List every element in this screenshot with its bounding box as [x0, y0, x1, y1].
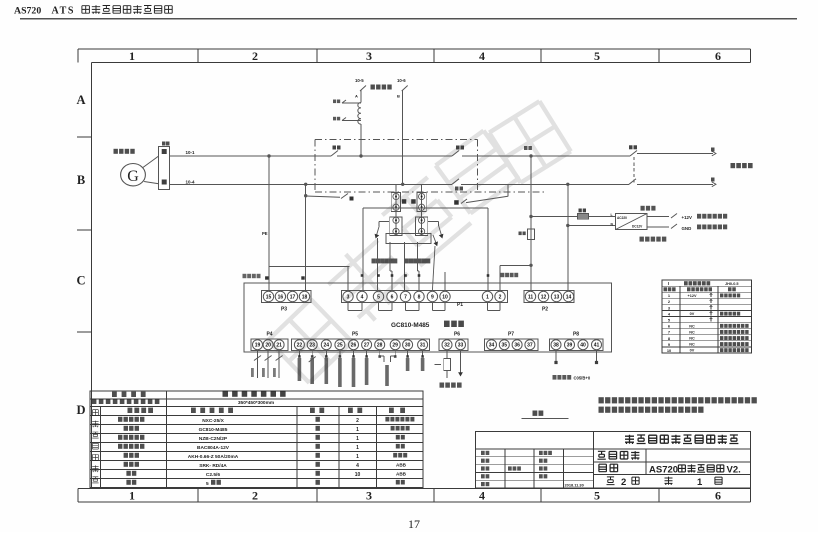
- svg-text:35: 35: [502, 343, 508, 349]
- battery label above terminals 1,2: [501, 273, 505, 277]
- label: generator charger: [640, 237, 644, 242]
- svg-text:26: 26: [351, 343, 357, 349]
- svg-text:10: 10: [442, 294, 448, 300]
- svg-text:ABB: ABB: [396, 472, 407, 477]
- tap arrow 10-5: [360, 86, 366, 92]
- svg-text:GC810-M485: GC810-M485: [391, 322, 430, 329]
- svg-text:JH0-0.5: JH0-0.5: [725, 282, 739, 286]
- svg-text:3: 3: [366, 49, 372, 63]
- terminal strip P8: [550, 339, 604, 351]
- svg-text:2: 2: [252, 489, 258, 503]
- tap arrow 10-6: [402, 90, 404, 184]
- svg-text:P1: P1: [457, 302, 463, 308]
- controller GC810-M485: [244, 283, 612, 352]
- svg-text:AS720: AS720: [14, 6, 41, 17]
- svg-text:PE: PE: [262, 231, 268, 236]
- svg-text:C2.5/6: C2.5/6: [206, 472, 220, 478]
- svg-text:6: 6: [715, 49, 721, 63]
- svg-text:13: 13: [554, 294, 560, 300]
- svg-text:P7: P7: [508, 332, 514, 338]
- svg-text:34: 34: [489, 343, 495, 349]
- ground bar: [533, 411, 538, 416]
- svg-text:20: 20: [265, 343, 271, 349]
- svg-text:17: 17: [408, 517, 420, 531]
- generator leads: [143, 156, 159, 168]
- svg-text:D: D: [76, 403, 85, 417]
- relay contact right with arrow: [428, 220, 439, 222]
- label: start signal (gen): [372, 259, 376, 264]
- svg-text:AKH-0.66-Z 50A/20mA: AKH-0.66-Z 50A/20mA: [188, 454, 239, 460]
- svg-text:SRK- RD/4A: SRK- RD/4A: [199, 463, 227, 469]
- svg-text:39: 39: [567, 343, 573, 349]
- label: mains supply: [731, 163, 736, 168]
- terminal strip P1: [342, 291, 508, 303]
- svg-text:32: 32: [444, 343, 450, 349]
- svg-text:NC: NC: [689, 337, 695, 341]
- wire: bus L (generator): [170, 155, 331, 157]
- svg-text:31: 31: [420, 343, 426, 349]
- vertical label: main electric components: [93, 410, 99, 416]
- note text: [599, 397, 604, 403]
- svg-text:+12V: +12V: [688, 294, 697, 298]
- svg-text:GND: GND: [682, 226, 692, 231]
- wire: bus N (generator): [170, 183, 452, 185]
- svg-text:P6: P6: [454, 332, 460, 338]
- relay output box: [386, 234, 431, 244]
- svg-text:2: 2: [621, 477, 626, 488]
- mains breaker QF1 contact on bus N: [629, 179, 636, 185]
- svg-text:15: 15: [266, 294, 272, 300]
- svg-text:NZB-C2N/2P: NZB-C2N/2P: [199, 436, 228, 442]
- svg-text:ABB: ABB: [396, 463, 407, 468]
- PSU output +12V: [647, 216, 669, 218]
- order unit row: [598, 451, 606, 459]
- mechanical link QF1: [633, 157, 635, 183]
- svg-text:10-4: 10-4: [186, 179, 196, 184]
- svg-text:5: 5: [594, 49, 600, 63]
- svg-text:A: A: [76, 93, 85, 107]
- svg-text:5: 5: [594, 489, 600, 503]
- table row: dimensions: [92, 399, 97, 404]
- svg-text:1: 1: [129, 489, 135, 503]
- frame left border and row letters: [91, 63, 93, 489]
- svg-text:NC: NC: [689, 331, 695, 335]
- terminal strip P6: [439, 339, 468, 351]
- fuse feed wire from bus L: [530, 156, 532, 217]
- terminals 28/29 jumper: [380, 355, 384, 357]
- svg-text:NXC-25/X: NXC-25/X: [202, 418, 224, 424]
- current transformer CT on bus L: [358, 103, 361, 125]
- svg-text:7: 7: [404, 294, 407, 300]
- svg-text:C05/B+0: C05/B+0: [574, 375, 591, 380]
- svg-text:19: 19: [255, 343, 261, 349]
- svg-text:27: 27: [364, 343, 370, 349]
- svg-text:2: 2: [252, 49, 258, 63]
- svg-text:B: B: [397, 94, 400, 99]
- svg-text:0V: 0V: [690, 312, 695, 316]
- terminal strip P2: [524, 291, 574, 303]
- P8 battery wires: [555, 350, 557, 361]
- svg-text:P4: P4: [266, 332, 272, 338]
- svg-text:25: 25: [337, 343, 343, 349]
- wire to mains arrow N: [637, 183, 713, 185]
- aux contact wire (breaker status): [306, 196, 340, 197]
- fuse F1: [578, 214, 589, 220]
- header rule: [20, 18, 797, 20]
- svg-text:10: 10: [667, 348, 671, 353]
- svg-text:41: 41: [594, 343, 600, 349]
- svg-text:DC12V: DC12V: [632, 225, 643, 229]
- svg-text:4: 4: [361, 294, 364, 300]
- mains breaker QF1 contact on bus L: [630, 151, 637, 157]
- svg-text:7: 7: [668, 330, 670, 335]
- svg-text:1: 1: [356, 454, 359, 460]
- svg-text:AS720: AS720: [649, 465, 678, 476]
- svg-text:4: 4: [479, 49, 485, 63]
- CT leads: [342, 102, 361, 104]
- P6 work-power resistor: [446, 350, 448, 359]
- svg-text:2: 2: [356, 418, 359, 424]
- svg-text:4: 4: [356, 463, 359, 469]
- terminal strip P4: [251, 339, 288, 351]
- svg-text:6: 6: [715, 489, 721, 503]
- company name: [625, 435, 634, 444]
- svg-text:GC810-M485: GC810-M485: [199, 427, 228, 433]
- frame bottom column strip: [78, 487, 751, 489]
- svg-text:2018.11.30: 2018.11.30: [565, 482, 584, 487]
- page count row: [607, 477, 615, 485]
- svg-text:17: 17: [290, 294, 296, 300]
- input terminal table: [662, 280, 752, 353]
- svg-text:14: 14: [566, 294, 572, 300]
- svg-text:P2: P2: [542, 307, 548, 313]
- terminal strip P3: [262, 291, 312, 303]
- generator terminal block: [159, 147, 170, 190]
- svg-text:1: 1: [356, 445, 359, 451]
- svg-text:18: 18: [302, 294, 308, 300]
- svg-text:21: 21: [276, 343, 282, 349]
- svg-text:9: 9: [431, 294, 434, 300]
- svg-text:3: 3: [347, 294, 350, 300]
- svg-text:29: 29: [392, 343, 398, 349]
- label: generator supply: [114, 149, 118, 154]
- svg-text:A: A: [355, 94, 358, 99]
- svg-text:10-6: 10-6: [397, 78, 406, 83]
- svg-text:ATS: ATS: [52, 6, 76, 17]
- svg-text:BAC804A-12V: BAC804A-12V: [197, 445, 230, 451]
- svg-text:P5: P5: [352, 332, 358, 338]
- PSU output GND: [647, 226, 669, 228]
- P5 stubs and signal labels: [298, 350, 300, 357]
- relay area outer box / wires to P1: [363, 207, 488, 209]
- svg-text:P3: P3: [281, 307, 287, 313]
- svg-text:40: 40: [580, 343, 586, 349]
- label: work power: [440, 383, 445, 388]
- label: optional: [641, 206, 645, 211]
- frame top column strip: [78, 48, 751, 50]
- svg-text:8: 8: [418, 294, 421, 300]
- N feed to PSU and terminal 14: [567, 184, 569, 290]
- svg-text:V2.: V2.: [727, 465, 741, 476]
- svg-text:30: 30: [405, 343, 411, 349]
- relay K2: [421, 184, 423, 235]
- label: start signal (mains): [405, 259, 409, 264]
- svg-text:12: 12: [541, 294, 547, 300]
- breaker contact QF on bus L (left): [331, 151, 338, 157]
- svg-text:24: 24: [324, 343, 330, 349]
- svg-text:1: 1: [486, 294, 489, 300]
- svg-text:11: 11: [528, 294, 534, 300]
- relay contact left with arrow: [379, 220, 389, 222]
- breaker contact on bus N: [452, 179, 459, 185]
- svg-text:16: 16: [278, 294, 284, 300]
- svg-text:G: G: [127, 168, 139, 185]
- breaker contact on bus L (right): [452, 151, 459, 157]
- svg-text:10-5: 10-5: [355, 78, 364, 83]
- ATS enclosure (dash-dot box): [315, 139, 478, 141]
- svg-text:23: 23: [309, 343, 315, 349]
- heater supply label: [371, 85, 375, 90]
- CT vertical to bus: [360, 124, 362, 156]
- svg-text:36: 36: [514, 343, 520, 349]
- component table: [90, 391, 423, 488]
- svg-text:+12V: +12V: [682, 215, 692, 220]
- svg-text:NC: NC: [689, 343, 695, 347]
- svg-text:1: 1: [356, 427, 359, 433]
- svg-text:10-1: 10-1: [186, 150, 196, 155]
- svg-text:1: 1: [356, 436, 359, 442]
- svg-text:5: 5: [206, 481, 209, 487]
- signature grid labels: [481, 451, 485, 455]
- label near controller corner: [243, 274, 247, 278]
- svg-text:28: 28: [377, 343, 383, 349]
- svg-text:6: 6: [391, 294, 394, 300]
- svg-text:AC220: AC220: [617, 216, 627, 220]
- svg-text:NC: NC: [689, 324, 695, 328]
- wire to mains arrow L: [637, 153, 713, 155]
- table row: equipment name: [112, 392, 117, 397]
- svg-text:38: 38: [553, 343, 559, 349]
- svg-text:10: 10: [355, 472, 361, 478]
- P4 output wires with arrows: [257, 350, 259, 378]
- wires to terminals 1,2,11: [529, 264, 532, 267]
- svg-text:33: 33: [458, 343, 464, 349]
- watermark: [268, 299, 352, 383]
- terminal strip P5: [292, 339, 430, 351]
- P3 feed wires: [268, 156, 270, 291]
- name row: [599, 464, 607, 472]
- label: generator battery: [553, 375, 557, 380]
- svg-text:37: 37: [527, 343, 533, 349]
- svg-text:1: 1: [697, 477, 703, 488]
- svg-text:C: C: [76, 274, 85, 288]
- svg-text:350*450*300mm: 350*450*300mm: [238, 400, 274, 406]
- svg-text:5: 5: [377, 294, 380, 300]
- table header row: [128, 408, 133, 413]
- svg-text:2: 2: [499, 294, 502, 300]
- svg-text:B: B: [77, 173, 85, 187]
- svg-text:4: 4: [479, 489, 485, 503]
- generator G: [121, 164, 146, 186]
- svg-text:3: 3: [366, 489, 372, 503]
- svg-text:I: I: [668, 281, 669, 286]
- svg-text:P8: P8: [573, 332, 579, 338]
- svg-text:1: 1: [129, 49, 135, 63]
- fuse/resistor on terminal feed: [530, 217, 532, 266]
- title block: [476, 432, 751, 489]
- terminal strip P7: [485, 339, 539, 351]
- svg-text:22: 22: [297, 343, 303, 349]
- relay K1: [395, 184, 397, 235]
- svg-text:0V: 0V: [690, 349, 695, 353]
- switching power supply (AC/DC): [616, 214, 648, 230]
- wires from relay area down to P1 terminals: [347, 266, 349, 290]
